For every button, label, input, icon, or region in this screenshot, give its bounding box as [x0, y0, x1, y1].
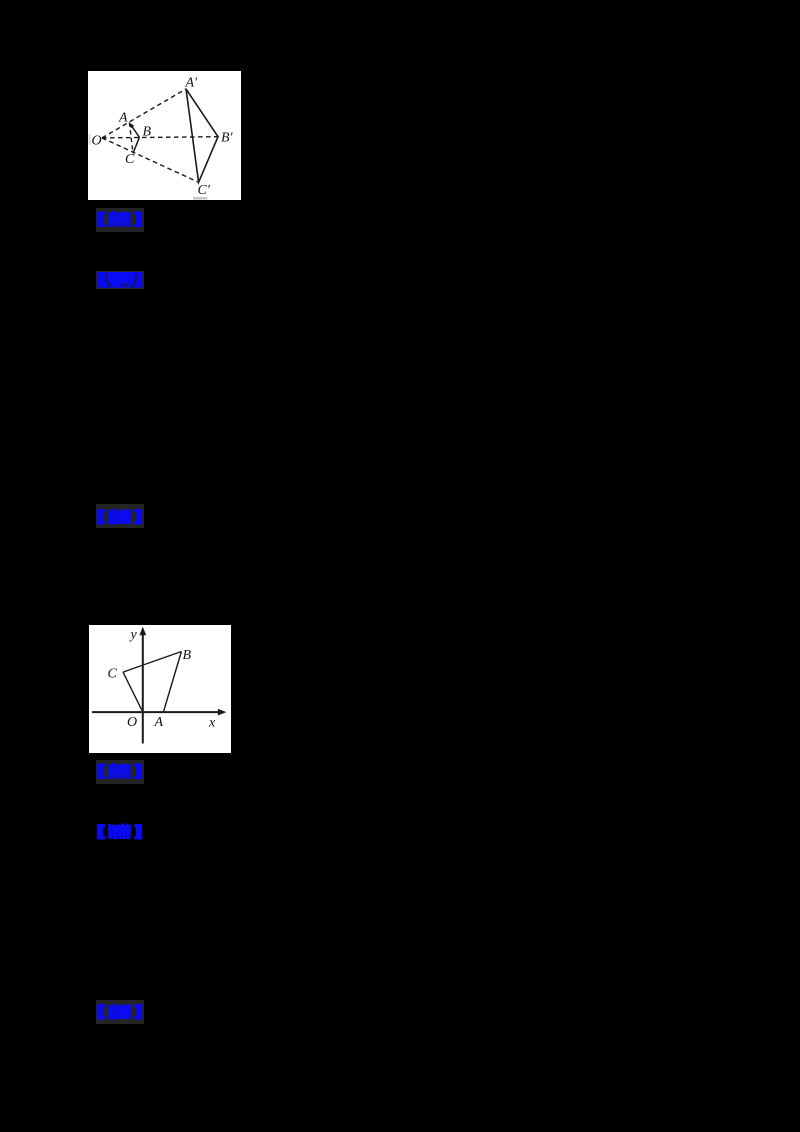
dashed ray O to B' — [102, 136, 218, 137]
label 4 fenxi — [96, 760, 144, 784]
svg-text:A: A — [153, 715, 163, 730]
gray tick left edge — [89, 134, 91, 144]
y axis arrowhead — [139, 626, 146, 634]
x axis — [92, 711, 223, 713]
svg-text:C: C — [107, 666, 117, 681]
svg-text:O: O — [127, 715, 137, 730]
svg-text:C: C — [125, 151, 135, 166]
label 1 fenxi — [96, 208, 144, 233]
svg-text:x: x — [208, 715, 216, 730]
dashed ray O to A' — [102, 89, 186, 138]
triangle A'B'C' — [186, 89, 218, 182]
figure 2: coordinate plane with quadrilateral O A B C — [89, 625, 231, 754]
figure 1: dilation diagram O,ABC -> A'B'C' — [88, 71, 241, 200]
svg-text:A′: A′ — [185, 75, 199, 90]
gray smudge bottom — [193, 197, 208, 200]
label 6 dianjing — [96, 1000, 144, 1024]
svg-text:y: y — [128, 627, 137, 642]
edge C B — [123, 651, 181, 672]
svg-text:O: O — [92, 133, 102, 148]
dashed segment A C — [129, 122, 133, 153]
svg-text:B: B — [182, 648, 191, 663]
label 5 xiangjie — [96, 820, 143, 844]
y axis — [141, 629, 143, 743]
label 3 dianjing — [96, 504, 145, 528]
edge O C — [123, 672, 143, 712]
solid segment B A — [130, 124, 139, 137]
svg-text:B: B — [143, 124, 152, 139]
svg-text:A: A — [118, 110, 128, 125]
dashed ray O to C' — [102, 138, 199, 182]
svg-text:C′: C′ — [198, 182, 211, 197]
solid segment B C — [133, 137, 139, 153]
x axis arrowhead — [217, 708, 225, 715]
label 2 xiangjie — [96, 271, 145, 289]
edge B A — [163, 651, 181, 712]
arrowhead at A — [129, 122, 134, 128]
svg-text:B′: B′ — [221, 130, 234, 145]
arrowhead at O — [102, 136, 106, 140]
